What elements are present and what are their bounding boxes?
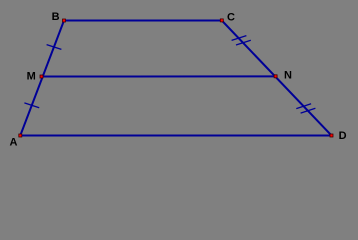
- svg-text:D: D: [339, 130, 347, 142]
- svg-text:A: A: [10, 137, 18, 149]
- svg-text:M: M: [27, 71, 36, 83]
- tick 1 on CN: [232, 36, 247, 41]
- wire bottom AD: [20, 135, 331, 137]
- wire midsegment MN: [42, 75, 276, 77]
- svg-text:B: B: [52, 11, 60, 23]
- point A: [19, 134, 22, 137]
- point N: [274, 75, 277, 78]
- point C: [220, 19, 223, 22]
- wire side CD: [222, 21, 332, 136]
- tick 2 on ND: [301, 108, 316, 113]
- point M: [40, 75, 43, 78]
- svg-text:C: C: [227, 12, 235, 24]
- svg-text:N: N: [284, 69, 292, 81]
- wire top BC: [64, 20, 222, 22]
- tick 2 on CN: [236, 40, 251, 45]
- tick 1 on ND: [296, 104, 311, 109]
- tick on BM: [47, 45, 62, 50]
- point B: [63, 19, 66, 22]
- wire side AB: [20, 21, 64, 136]
- point D: [330, 134, 333, 137]
- tick on MA: [24, 103, 39, 108]
